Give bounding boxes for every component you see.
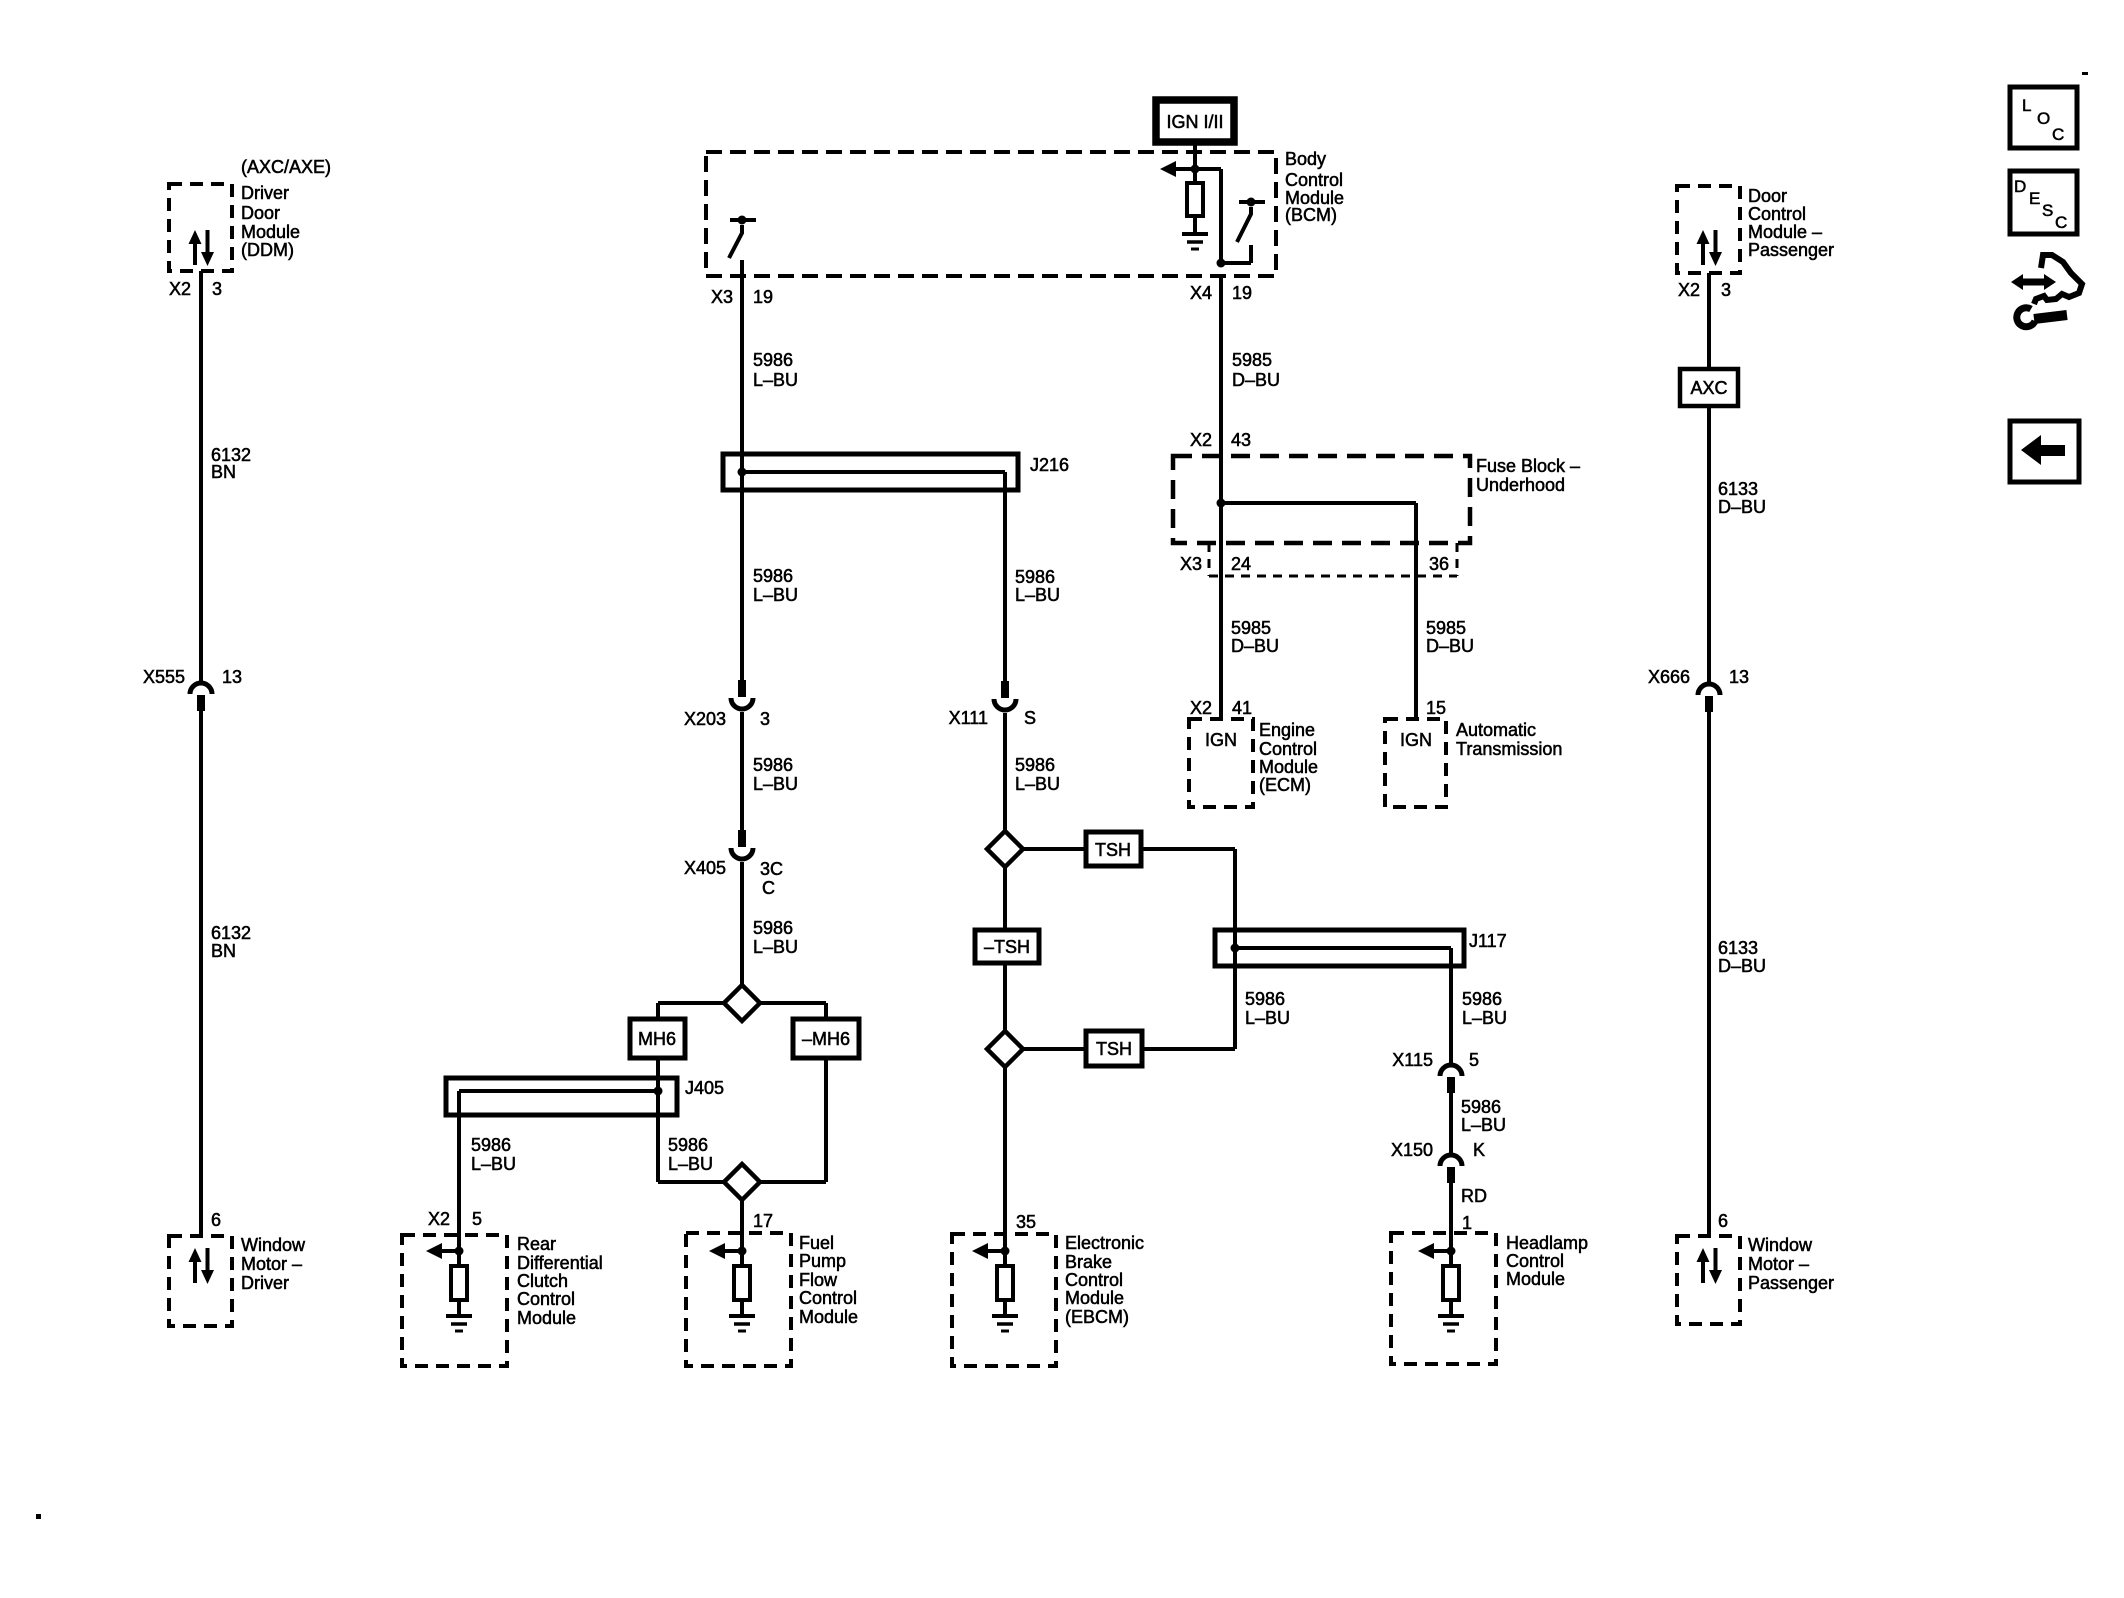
wire 5986 L-BU	[740, 862, 744, 985]
svg-text:AXC: AXC	[1690, 378, 1727, 398]
svg-text:Fuse Block –: Fuse Block –	[1476, 456, 1580, 476]
wire to MH6	[658, 1001, 724, 1005]
svg-text:5986: 5986	[668, 1135, 708, 1155]
vehicle navigation icon (double arrow, outline, wrench)	[2011, 255, 2082, 327]
svg-text:5985: 5985	[1426, 618, 1466, 638]
svg-text:13: 13	[222, 667, 242, 687]
Window Motor - Driver dashed box	[169, 1236, 232, 1326]
svg-text:Passenger: Passenger	[1748, 1273, 1834, 1293]
svg-text:Control: Control	[1285, 170, 1343, 190]
splice diamond to TSH lower	[987, 1031, 1023, 1067]
inline connector X115 pin 5	[1440, 1065, 1462, 1076]
svg-text:D–BU: D–BU	[1232, 370, 1280, 390]
svg-text:IGN: IGN	[1205, 730, 1237, 750]
ground inside BCM	[1182, 232, 1208, 236]
arrow into BCM logic	[1160, 161, 1176, 177]
svg-text:Pump: Pump	[799, 1251, 846, 1271]
svg-text:15: 15	[1426, 698, 1446, 718]
switch left (X3 output)	[738, 216, 747, 225]
svg-text:X4: X4	[1190, 283, 1212, 303]
wire 5986 L-BU from J117 to X115	[1449, 948, 1453, 1064]
svg-text:5986: 5986	[1015, 567, 1055, 587]
svg-text:IGN: IGN	[1400, 730, 1432, 750]
svg-text:(AXC/AXE): (AXC/AXE)	[241, 157, 331, 177]
svg-text:5986: 5986	[753, 566, 793, 586]
svg-text:Control: Control	[517, 1289, 575, 1309]
svg-text:5986: 5986	[471, 1135, 511, 1155]
svg-text:J405: J405	[685, 1078, 724, 1098]
inline connector X555 pin 13	[190, 683, 212, 694]
option box TSH upper	[1086, 832, 1141, 866]
svg-text:S: S	[1024, 708, 1036, 728]
svg-text:6: 6	[1718, 1211, 1728, 1231]
svg-text:L–BU: L–BU	[668, 1154, 713, 1174]
svg-text:Passenger: Passenger	[1748, 240, 1834, 260]
svg-text:D–BU: D–BU	[1426, 636, 1474, 656]
svg-text:D–BU: D–BU	[1718, 956, 1766, 976]
svg-text:X405: X405	[684, 858, 726, 878]
wire 5986 L-BU	[1449, 1093, 1453, 1154]
svg-text:Control: Control	[1506, 1251, 1564, 1271]
svg-text:Door: Door	[241, 203, 280, 223]
wire to TSH upper	[1023, 847, 1086, 851]
node junction	[1191, 165, 1200, 174]
svg-text:X3: X3	[1180, 554, 1202, 574]
svg-text:X2: X2	[1678, 280, 1700, 300]
svg-text:13: 13	[1729, 667, 1749, 687]
svg-text:D: D	[2014, 177, 2026, 196]
svg-text:5986: 5986	[753, 755, 793, 775]
svg-text:L: L	[2022, 96, 2031, 115]
svg-text:3C: 3C	[760, 859, 783, 879]
svg-text:L–BU: L–BU	[753, 585, 798, 605]
svg-text:D–BU: D–BU	[1231, 636, 1279, 656]
svg-text:24: 24	[1231, 554, 1251, 574]
svg-text:5986: 5986	[753, 918, 793, 938]
svg-text:L–BU: L–BU	[753, 774, 798, 794]
inline connector X203 pin 3	[738, 680, 746, 697]
svg-text:5985: 5985	[1231, 618, 1271, 638]
svg-text:BN: BN	[211, 462, 236, 482]
svg-text:C: C	[2055, 213, 2067, 232]
svg-text:X115: X115	[1392, 1050, 1433, 1070]
svg-text:L–BU: L–BU	[753, 937, 798, 957]
svg-text:Clutch: Clutch	[517, 1271, 568, 1291]
svg-text:1: 1	[1462, 1213, 1472, 1233]
svg-text:X555: X555	[143, 667, 185, 687]
svg-text:Module –: Module –	[1748, 222, 1822, 242]
wire 5986 L-BU from BCM X3 to J216 and down to X203	[740, 260, 744, 680]
wire 6132 BN upper segment	[199, 271, 203, 682]
wire 5986 L-BU from J216 to X111	[1003, 472, 1007, 681]
wire MH6 to J405 and to lower diamond	[656, 1058, 660, 1182]
tiny mark bottom left	[36, 1514, 41, 1519]
option box TSH lower	[1086, 1031, 1142, 1066]
svg-text:X2: X2	[428, 1209, 450, 1229]
Fuse Block - Underhood dashed box	[1173, 456, 1470, 543]
svg-text:X666: X666	[1648, 667, 1690, 687]
option box -TSH	[975, 930, 1039, 963]
svg-text:Transmission: Transmission	[1456, 739, 1562, 759]
svg-text:5986: 5986	[1015, 755, 1055, 775]
inline connector X405 pins 3C/C	[738, 830, 746, 847]
svg-text:Flow: Flow	[799, 1270, 838, 1290]
svg-text:TSH: TSH	[1096, 1039, 1132, 1059]
svg-text:RD: RD	[1461, 1186, 1487, 1206]
svg-text:3: 3	[760, 709, 770, 729]
splice diamond lower	[658, 1180, 724, 1184]
splice diamond to TSH	[987, 831, 1023, 867]
svg-text:Module: Module	[241, 222, 300, 242]
svg-text:S: S	[2042, 201, 2053, 220]
splice pack J216	[723, 454, 1018, 490]
svg-text:Control: Control	[1259, 739, 1317, 759]
svg-text:L–BU: L–BU	[1462, 1008, 1507, 1028]
svg-text:41: 41	[1232, 698, 1252, 718]
switch right (driver window down relay)	[1247, 198, 1256, 207]
svg-text:Fuel: Fuel	[799, 1233, 834, 1253]
tiny dash mark top right	[2082, 72, 2088, 75]
svg-text:19: 19	[1232, 283, 1252, 303]
svg-text:MH6: MH6	[638, 1029, 676, 1049]
wire 6133 D-BU upper	[1707, 406, 1711, 683]
svg-text:Motor –: Motor –	[241, 1254, 302, 1274]
X3 connector strip on fuse block	[1208, 543, 1211, 576]
svg-text:Control: Control	[799, 1288, 857, 1308]
svg-text:Brake: Brake	[1065, 1252, 1112, 1272]
svg-text:X111: X111	[949, 708, 988, 728]
wire to -MH6	[760, 1001, 826, 1005]
option box MH6	[630, 1019, 685, 1058]
inline connector X150 pin K	[1440, 1155, 1462, 1166]
Fuel Pump Flow Control Module dashed box	[686, 1233, 791, 1366]
svg-text:X150: X150	[1391, 1140, 1433, 1160]
wire 6133 D-BU lower	[1707, 712, 1711, 1236]
svg-text:Driver: Driver	[241, 183, 289, 203]
window up/down arrows inside DDM	[189, 230, 202, 244]
wire 5986 L-BU	[1003, 713, 1007, 831]
svg-text:D–BU: D–BU	[1718, 497, 1766, 517]
wire to TSH lower	[1023, 1047, 1086, 1051]
resistor inside BCM	[1193, 169, 1197, 183]
svg-text:5: 5	[1469, 1050, 1479, 1070]
splice pack J405	[446, 1078, 677, 1115]
svg-text:Control: Control	[1065, 1270, 1123, 1290]
svg-text:Module: Module	[1065, 1288, 1124, 1308]
svg-text:L–BU: L–BU	[1015, 774, 1060, 794]
svg-text:17: 17	[753, 1211, 773, 1231]
svg-text:C: C	[2052, 125, 2064, 144]
Automatic Transmission dashed box	[1385, 719, 1446, 807]
wire to fuel pump module pin 17	[740, 1200, 744, 1251]
svg-text:IGN I/II: IGN I/II	[1166, 112, 1223, 132]
wire diamond to -TSH	[1003, 867, 1007, 930]
svg-text:43: 43	[1231, 430, 1251, 450]
wire to right switch	[1219, 169, 1223, 263]
svg-text:6133: 6133	[1718, 479, 1758, 499]
svg-text:L–BU: L–BU	[1245, 1008, 1290, 1028]
svg-text:(BCM): (BCM)	[1285, 205, 1337, 225]
svg-text:Driver: Driver	[241, 1273, 289, 1293]
svg-text:3: 3	[1721, 280, 1731, 300]
svg-text:J216: J216	[1030, 455, 1069, 475]
wire 5985 D-BU from BCM X4 to fuse block	[1219, 276, 1223, 719]
Door Control Module - Passenger dashed box	[1677, 186, 1740, 273]
svg-text:35: 35	[1016, 1212, 1036, 1232]
inline connector X666 pin 13	[1698, 684, 1720, 695]
svg-text:6132: 6132	[211, 923, 251, 943]
Window Motor - Passenger dashed box	[1677, 1236, 1740, 1324]
svg-text:K: K	[1473, 1140, 1485, 1160]
svg-text:X3: X3	[711, 287, 733, 307]
svg-text:Window: Window	[1748, 1235, 1813, 1255]
wire 5986 L-BU	[740, 712, 744, 830]
svg-text:Underhood: Underhood	[1476, 475, 1565, 495]
Headlamp Control Module dashed box	[1391, 1233, 1496, 1364]
wire to AXC option box	[1707, 273, 1711, 369]
svg-text:Module: Module	[1259, 757, 1318, 777]
svg-text:C: C	[762, 878, 775, 898]
svg-text:L–BU: L–BU	[1015, 585, 1060, 605]
svg-text:Module: Module	[1506, 1269, 1565, 1289]
wire from IGN I/II into BCM	[1193, 142, 1197, 167]
svg-text:TSH: TSH	[1095, 840, 1131, 860]
svg-text:Body: Body	[1285, 149, 1326, 169]
svg-text:J117: J117	[1469, 931, 1507, 951]
splice pack J117	[1215, 930, 1464, 966]
svg-text:5986: 5986	[753, 350, 793, 370]
svg-text:Electronic: Electronic	[1065, 1233, 1144, 1253]
svg-text:L–BU: L–BU	[753, 370, 798, 390]
option box -MH6	[793, 1019, 859, 1058]
svg-text:5986: 5986	[1462, 989, 1502, 1009]
svg-text:O: O	[2037, 109, 2050, 128]
svg-text:(ECM): (ECM)	[1259, 775, 1311, 795]
svg-text:Automatic: Automatic	[1456, 720, 1536, 740]
wire 6132 BN lower segment	[199, 711, 203, 1236]
Engine Control Module (ECM) dashed box	[1189, 719, 1253, 807]
wire to transmission branch	[1221, 501, 1416, 505]
svg-text:BN: BN	[211, 941, 236, 961]
wire TSH to J117 riser	[1141, 847, 1235, 851]
svg-text:5986: 5986	[1461, 1097, 1501, 1117]
svg-text:–MH6: –MH6	[802, 1029, 850, 1049]
svg-text:L–BU: L–BU	[471, 1154, 516, 1174]
LOC button	[2010, 87, 2077, 148]
svg-text:5: 5	[472, 1209, 482, 1229]
svg-text:6133: 6133	[1718, 938, 1758, 958]
svg-text:Motor –: Motor –	[1748, 1254, 1809, 1274]
svg-text:Window: Window	[241, 1235, 306, 1255]
svg-text:E: E	[2029, 189, 2040, 208]
wire RD to headlamp module	[1449, 1183, 1453, 1251]
node inside fuse block	[1217, 499, 1226, 508]
svg-text:19: 19	[753, 287, 773, 307]
svg-text:X203: X203	[684, 709, 726, 729]
svg-text:(EBCM): (EBCM)	[1065, 1307, 1129, 1327]
Rear Differential Clutch Control Module dashed box	[402, 1235, 507, 1366]
DESC button	[2010, 171, 2077, 234]
Driver Door Module (DDM) dashed box	[169, 184, 232, 271]
svg-text:3: 3	[212, 279, 222, 299]
svg-text:Differential: Differential	[517, 1253, 603, 1273]
splice diamond upper	[724, 985, 760, 1021]
svg-text:Headlamp: Headlamp	[1506, 1233, 1588, 1253]
wire 5986 L-BU to rear diff module	[457, 1091, 461, 1251]
inline connector X111 pin S	[1001, 681, 1009, 698]
wire -MH6 to lower diamond	[824, 1058, 828, 1182]
option box AXC	[1680, 369, 1738, 406]
svg-text:5986: 5986	[1245, 989, 1285, 1009]
svg-text:Rear: Rear	[517, 1234, 556, 1254]
svg-text:Control: Control	[1748, 204, 1806, 224]
svg-text:X2: X2	[1190, 698, 1212, 718]
svg-text:(DDM): (DDM)	[241, 240, 294, 260]
svg-text:6: 6	[211, 1210, 221, 1230]
back arrow button	[2010, 421, 2079, 482]
svg-text:5985: 5985	[1232, 350, 1272, 370]
Electronic Brake Control Module (EBCM) dashed box	[952, 1234, 1056, 1366]
svg-text:–TSH: –TSH	[984, 937, 1030, 957]
svg-text:X2: X2	[169, 279, 191, 299]
svg-text:36: 36	[1429, 554, 1449, 574]
svg-text:Module: Module	[517, 1308, 576, 1328]
IGN I/II power feed box	[1156, 100, 1234, 142]
svg-text:Engine: Engine	[1259, 720, 1315, 740]
svg-text:L–BU: L–BU	[1461, 1115, 1506, 1135]
wire TSH lower to riser	[1142, 1047, 1235, 1051]
Body Control Module (BCM) dashed box	[706, 152, 1276, 276]
svg-text:Door: Door	[1748, 186, 1787, 206]
wire -TSH to lower diamond	[1003, 963, 1007, 1031]
svg-text:Module: Module	[799, 1307, 858, 1327]
svg-text:X2: X2	[1190, 430, 1212, 450]
wire lower diamond to EBCM pin 35	[1003, 1067, 1007, 1251]
